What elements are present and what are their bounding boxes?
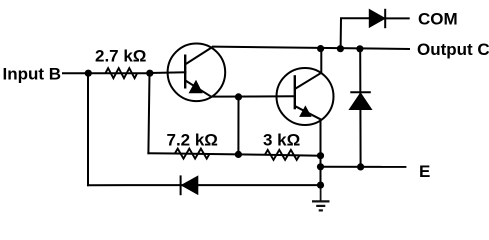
svg-text:Input B: Input B [3,65,62,84]
wire emitter Q1 to base Q2 [211,95,294,97]
wire COM diode to COM terminal [385,17,409,19]
transistor Q1 [168,44,226,102]
wire COM riser [341,18,370,48]
wire Q2 collector riser [320,49,322,73]
resistor R2 7.2 kOhm zigzag [175,149,210,159]
wire second column from 2.7k node down to resistor row [148,73,149,153]
svg-text:3 kΩ: 3 kΩ [263,130,300,149]
node diode row / ground column [317,182,324,189]
node Output C / COM riser [337,45,344,52]
wire Output C rail [213,47,409,49]
svg-text:E: E [419,162,430,181]
wire resistor row 7.2k/3k [148,153,320,156]
ground [312,185,330,210]
resistor R3 3 kOhm zigzag [265,150,300,160]
node Output C / Q2 collector [317,45,324,52]
node 3k / emitter column [317,152,324,159]
node Q1 emitter / Q2 base junction [235,93,242,100]
wire E line [321,166,406,168]
svg-text:COM: COM [418,10,458,29]
resistor R1 2.7 kOhm zigzag [105,68,137,78]
wire clamp diode column [359,49,361,167]
svg-text:Output C: Output C [417,40,489,59]
wire node column Q2 base to resistor row [237,97,239,154]
wire bottom diode row [88,184,321,186]
diode D3 input clamp (cathode bar left, pointing left) [181,175,198,195]
node 2.7k/base junction [146,70,153,77]
node input junction [85,70,92,77]
wire Input B lead [63,72,150,74]
diode D2 clamp C-E (cathode bar top, pointing up) [349,92,371,109]
wire left column from input node down to diode row [87,73,89,185]
node E line / emitter column [317,163,324,170]
svg-text:7.2 kΩ: 7.2 kΩ [167,130,218,149]
transistor Q2 [277,68,334,125]
diode D1 to COM (anode left, cathode bar right) [369,9,385,28]
node 7.2k/3k junction [235,151,242,158]
wire base lead Q1 [150,71,186,74]
node Output C / clamp diode [356,45,363,52]
wire Q2 emitter column [320,120,322,186]
svg-text:2.7 kΩ: 2.7 kΩ [95,46,146,65]
node E line / clamp diode [357,163,364,170]
